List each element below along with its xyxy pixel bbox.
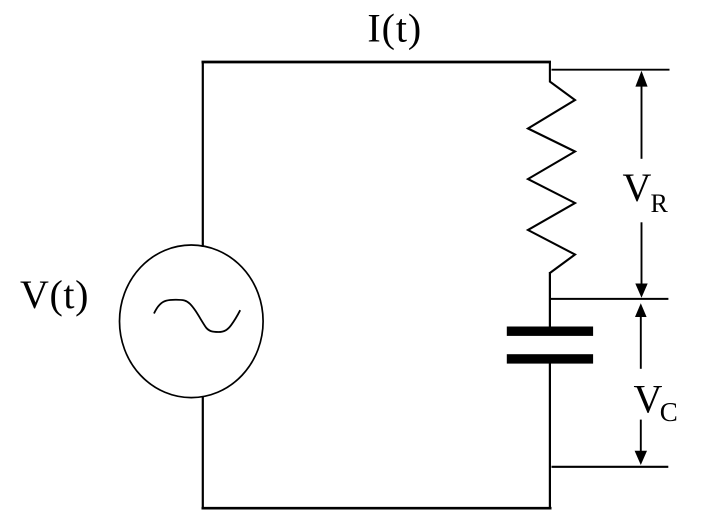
arrow VR lower shaft — [641, 222, 643, 285]
wire left upper (source top lead) — [202, 62, 204, 247]
svg-text:V(t): V(t) — [20, 272, 89, 317]
measurement line middle (VR/VC boundary) — [549, 298, 668, 300]
wire right between resistor and capacitor — [549, 272, 551, 327]
svg-text:V: V — [634, 377, 663, 422]
arrow VC upper shaft — [640, 315, 642, 369]
arrow VR up arrowhead — [635, 71, 647, 87]
measurement line top (VR top reference) — [552, 69, 670, 71]
arrow VR upper shaft — [641, 85, 643, 159]
arrow VC lower shaft — [640, 420, 642, 452]
source sine wave — [154, 300, 240, 332]
capacitor C top plate — [507, 327, 593, 336]
wire left lower (source bottom lead) — [202, 396, 204, 509]
svg-text:R: R — [651, 189, 669, 218]
resistor R zigzag — [528, 63, 575, 273]
arrow VC down arrowhead — [635, 451, 647, 465]
wire right below capacitor — [549, 364, 551, 510]
wire top (I(t) branch) — [202, 61, 552, 64]
svg-text:C: C — [660, 397, 678, 427]
svg-text:I(t): I(t) — [367, 6, 422, 51]
wire bottom — [202, 507, 552, 510]
source V(t) circle — [120, 245, 264, 398]
arrow VR down arrowhead — [635, 284, 647, 298]
arrow VC up arrowhead — [635, 303, 647, 317]
measurement line bottom (VC bottom reference) — [552, 466, 669, 468]
capacitor C bottom plate — [507, 354, 593, 363]
svg-text:V: V — [623, 165, 652, 210]
